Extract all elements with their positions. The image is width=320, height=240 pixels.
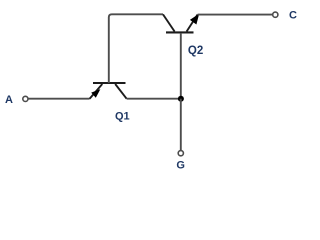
svg-text:Q1: Q1	[115, 110, 130, 122]
node junction	[178, 96, 184, 102]
terminal A	[23, 96, 28, 101]
svg-text:Q2: Q2	[188, 45, 203, 57]
svg-text:G: G	[176, 159, 185, 171]
wire Q2 base to junction	[180, 33, 182, 99]
terminal G	[178, 151, 183, 156]
wire A to Q1 emitter	[28, 98, 89, 100]
wire Q2 emitter to terminal C	[198, 14, 273, 16]
svg-text:C: C	[289, 10, 297, 22]
transistor Q1	[90, 83, 127, 99]
wire Q1 collector to junction	[127, 98, 181, 100]
transistor Q2	[163, 14, 199, 33]
terminal C	[273, 12, 278, 17]
svg-text:A: A	[5, 94, 13, 106]
wire junction to G	[180, 99, 182, 151]
wire Q1 base to Q2 collector	[109, 14, 163, 83]
